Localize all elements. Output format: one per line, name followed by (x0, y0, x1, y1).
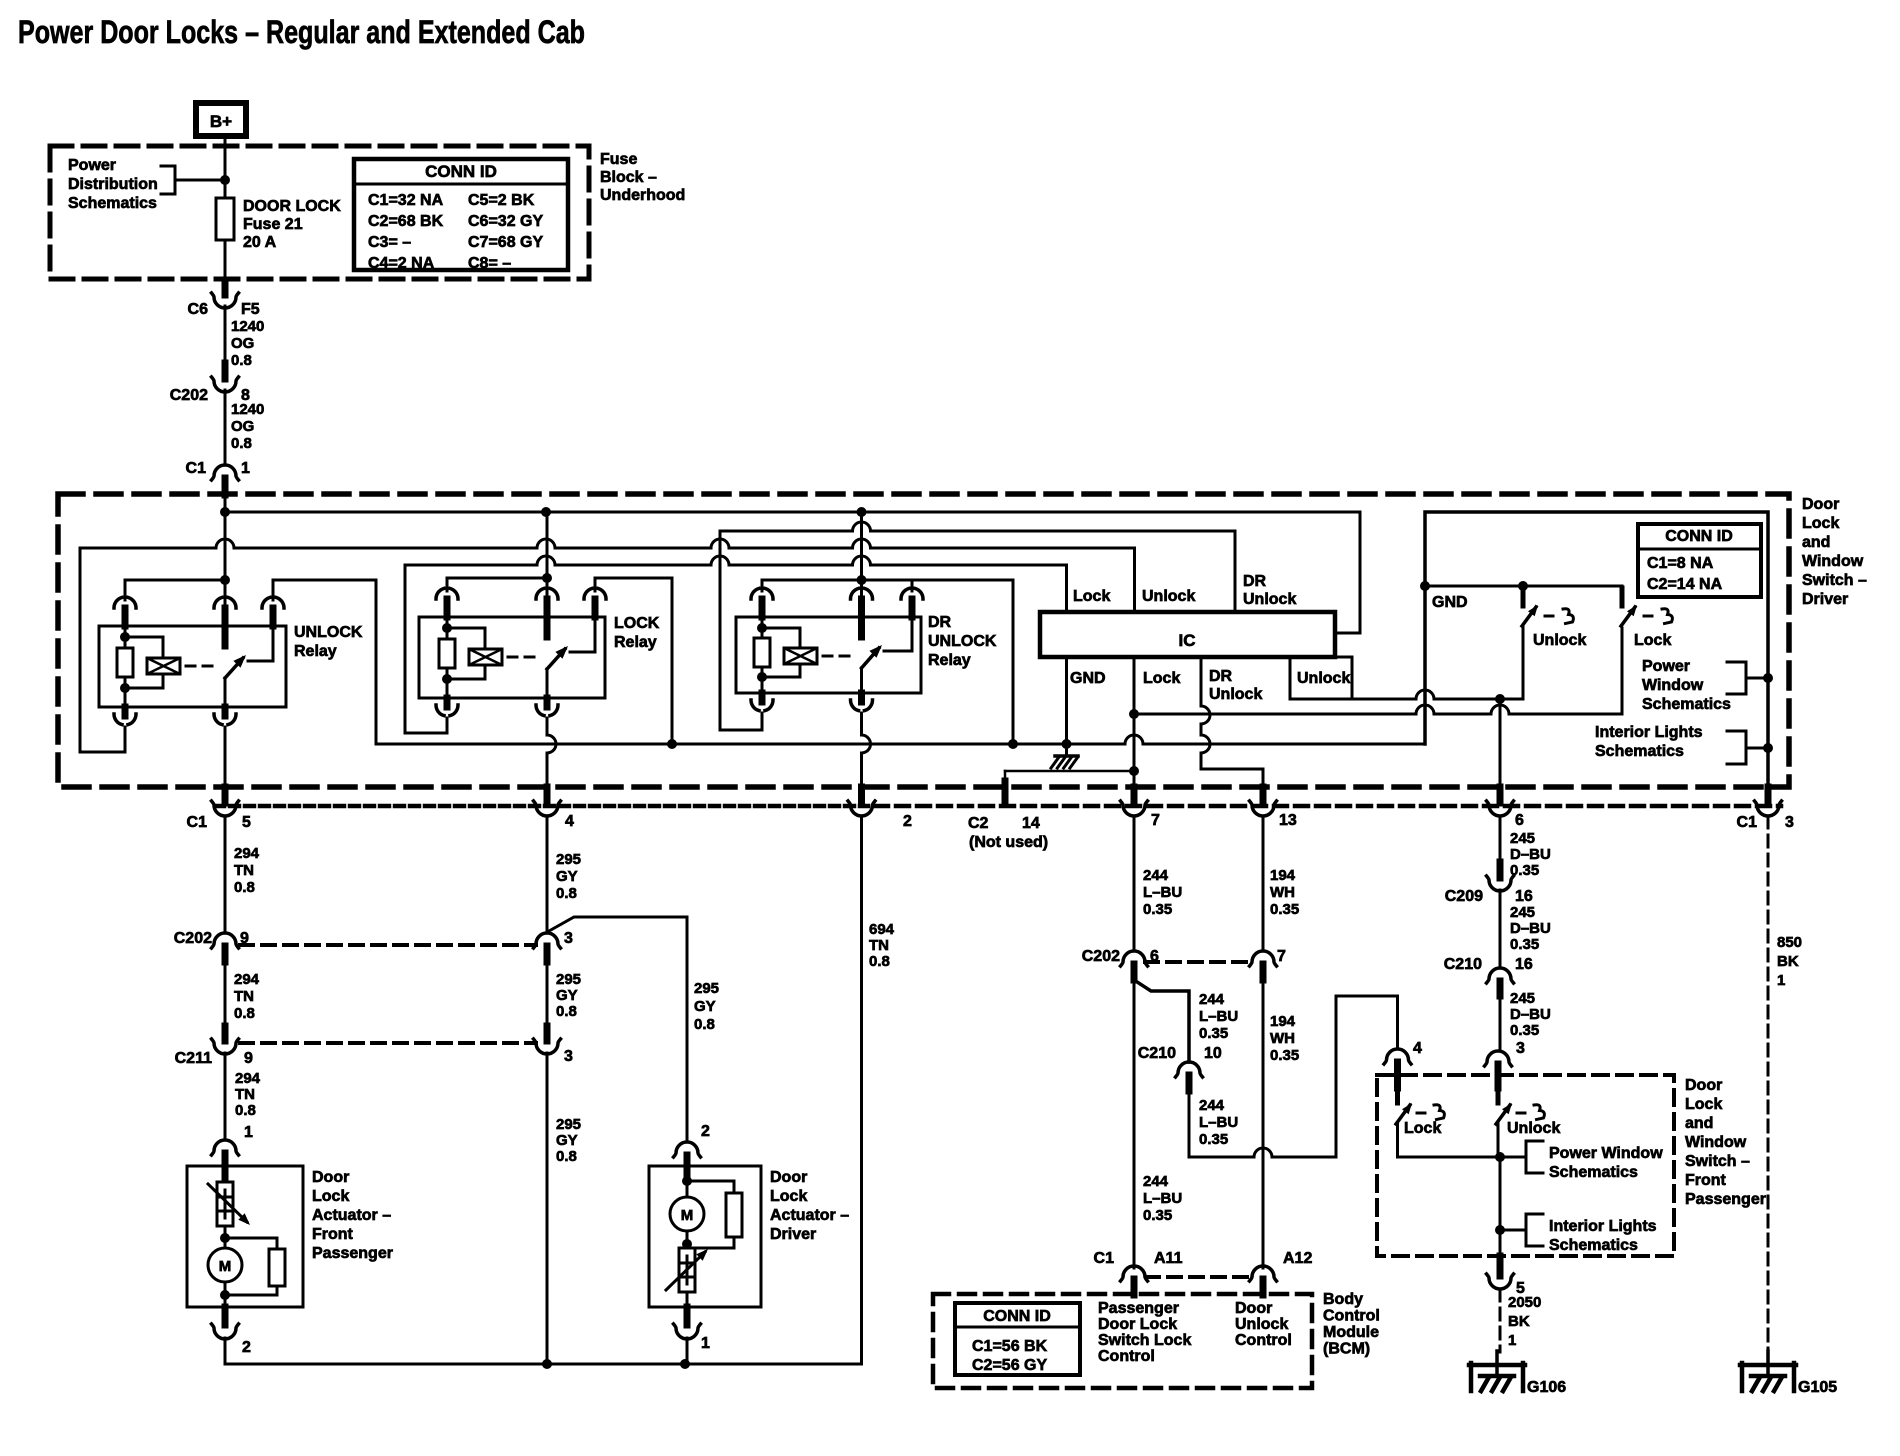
svg-text:9: 9 (244, 1050, 253, 1067)
svg-text:C1: C1 (1737, 814, 1758, 831)
svg-text:9: 9 (240, 930, 249, 947)
node IC lock pin at driver lock wire (1129, 709, 1139, 719)
svg-text:TN: TN (234, 862, 254, 879)
svg-text:M: M (681, 1207, 694, 1224)
svg-text:0.8: 0.8 (694, 1016, 715, 1033)
svg-text:C7=68 GY: C7=68 GY (468, 234, 543, 251)
node common wire at driver pin 1 (680, 1359, 690, 1369)
wire dr unlock coil feed and right pin to output drop (762, 580, 1013, 744)
node dr unlock relay B+ feed (857, 575, 867, 585)
connector C202 pin 7 (1250, 951, 1277, 966)
svg-text:Body: Body (1323, 1291, 1363, 1308)
connector C2 pin 6 (1497, 787, 1504, 803)
dr unlock relay coil pin top connector (751, 588, 759, 599)
svg-text:C202: C202 (170, 387, 208, 404)
unlock relay coil resistor (124, 626, 127, 648)
svg-text:C8= –: C8= – (468, 255, 511, 272)
svg-text:0.35: 0.35 (1270, 1047, 1299, 1064)
svg-text:C202: C202 (174, 930, 212, 947)
svg-text:C1=56 BK: C1=56 BK (972, 1338, 1048, 1355)
svg-text:2050: 2050 (1508, 1294, 1541, 1311)
svg-text:G105: G105 (1798, 1379, 1837, 1396)
svg-text:C210: C210 (1444, 956, 1482, 973)
svg-text:0.35: 0.35 (1199, 1131, 1228, 1148)
node ground bus at dr unlock output (1008, 739, 1018, 749)
svg-text:0.8: 0.8 (235, 1102, 256, 1119)
svg-text:GY: GY (556, 1132, 578, 1149)
ground bus wire (376, 735, 1425, 744)
svg-text:Module: Module (1323, 1324, 1379, 1341)
svg-text:0.35: 0.35 (1510, 1022, 1539, 1039)
svg-text:C1: C1 (186, 460, 207, 477)
svg-text:245: 245 (1510, 990, 1535, 1007)
dr unlock relay switch blade (862, 648, 880, 668)
svg-text:OG: OG (231, 418, 254, 435)
dr unlock relay coil bottom pin connector (759, 693, 766, 702)
wire driver unlock output down to pin 6 (1499, 699, 1502, 786)
svg-text:C6: C6 (188, 301, 209, 318)
connector face dotted line (215, 804, 868, 809)
svg-text:0.8: 0.8 (869, 953, 890, 970)
connector BCM row dashed line (1146, 1275, 1252, 1279)
svg-text:20 A: 20 A (243, 234, 277, 251)
svg-text:Window: Window (1802, 553, 1864, 570)
svg-text:244: 244 (1199, 1097, 1225, 1114)
svg-text:C210: C210 (1138, 1045, 1176, 1062)
connector BCM pin A12 (1250, 1266, 1277, 1281)
svg-text:294: 294 (234, 971, 260, 988)
wire 294 TN 0.8 C211 to actuator pin 1 (224, 1053, 227, 1140)
svg-text:CONN ID: CONN ID (983, 1308, 1051, 1325)
svg-text:Power: Power (68, 157, 116, 174)
wire lock relay feed from bus A (546, 512, 549, 599)
connector C2 pin 13 (1260, 787, 1267, 803)
node driver switch unlock contact (1518, 581, 1528, 591)
svg-text:Lock: Lock (1685, 1096, 1722, 1113)
wire dr unlock bus left leg to dr unlock relay coil (720, 531, 762, 730)
svg-text:Passenger: Passenger (1098, 1300, 1179, 1317)
svg-text:Schematics: Schematics (68, 195, 157, 212)
connector C2 pin 7 (1131, 787, 1138, 803)
svg-text:C4=2 NA: C4=2 NA (368, 255, 435, 272)
svg-text:Fuse 21: Fuse 21 (243, 216, 303, 233)
svg-text:CONN ID: CONN ID (425, 162, 497, 181)
svg-text:TN: TN (235, 1086, 255, 1103)
lock relay box (419, 617, 605, 698)
wire lock relay right pin to output drop (595, 578, 672, 744)
op-amp IC box (1040, 612, 1335, 657)
body control module dashed box (933, 1294, 1312, 1388)
svg-text:0.35: 0.35 (1143, 1207, 1172, 1224)
dr unlock relay coil winding branch (762, 628, 800, 677)
svg-text:and: and (1802, 534, 1830, 551)
svg-text:2: 2 (242, 1339, 251, 1356)
unlock relay coil bottom pin connector (122, 707, 129, 716)
svg-text:C2=14 NA: C2=14 NA (1647, 576, 1723, 593)
svg-text:14: 14 (1022, 815, 1040, 832)
wire 294 TN 0.8 C202 to C211 (224, 962, 227, 1040)
svg-text:CONN ID: CONN ID (1665, 528, 1733, 545)
connector actuator driver pin 1 (684, 1307, 691, 1325)
dr unlock relay right pin top connector (901, 588, 909, 599)
connector actuator passenger pin 2 (222, 1307, 229, 1325)
svg-text:6: 6 (1515, 812, 1524, 829)
connector row C211 dashed line (240, 1041, 536, 1045)
node unlock coil top (120, 632, 130, 642)
CONN ID table fuse block (354, 159, 568, 270)
node unlock coil bottom (120, 683, 130, 693)
svg-text:WH: WH (1270, 1030, 1295, 1047)
door lock actuator front passenger box (187, 1166, 303, 1307)
connector C1 pin 4 (544, 787, 551, 803)
svg-text:245: 245 (1510, 904, 1535, 921)
svg-text:Unlock: Unlock (1235, 1316, 1288, 1333)
ground G105 (1740, 1363, 1796, 1368)
wire dr unlock relay feed from bus A (860, 512, 863, 599)
svg-text:Fuse: Fuse (600, 151, 637, 168)
connector BCM pin A11 (1121, 1266, 1148, 1281)
driver switch inner box (1425, 512, 1768, 787)
svg-text:Block –: Block – (600, 169, 657, 186)
svg-text:A11: A11 (1154, 1250, 1183, 1267)
svg-text:C2: C2 (968, 815, 989, 832)
svg-text:0.8: 0.8 (234, 879, 255, 896)
ground G106 (1469, 1363, 1525, 1368)
wire unlock bus left leg to unlock relay coil (80, 548, 125, 752)
wire 295 GY branch to driver actuator (549, 917, 687, 1142)
svg-text:Lock: Lock (1634, 632, 1671, 649)
svg-text:Unlock: Unlock (1209, 686, 1262, 703)
wire switch common down (1499, 1157, 1502, 1256)
lock relay actuation dashes (508, 656, 538, 659)
svg-text:L–BU: L–BU (1199, 1008, 1238, 1025)
wire front passenger unlock switch pivot (1497, 1124, 1500, 1157)
svg-text:C3= –: C3= – (368, 234, 411, 251)
node lock coil top (442, 623, 452, 633)
wire 294 TN 0.8 pin5 to C202 (224, 816, 227, 933)
connector row C202 left dashed line (240, 943, 536, 947)
actuator passenger variable resistor (224, 1166, 227, 1182)
svg-text:244: 244 (1143, 867, 1169, 884)
svg-text:2: 2 (903, 813, 912, 830)
svg-text:C1: C1 (187, 814, 208, 831)
svg-text:Lock: Lock (1404, 1120, 1441, 1137)
svg-text:OG: OG (231, 335, 254, 352)
svg-text:1240: 1240 (231, 401, 264, 418)
svg-text:295: 295 (694, 980, 719, 997)
lock relay right pin top connector (584, 588, 592, 599)
wire into driver switch module (224, 495, 227, 608)
svg-text:C2=56 GY: C2=56 GY (972, 1357, 1047, 1374)
svg-text:C209: C209 (1445, 888, 1483, 905)
svg-text:295: 295 (556, 851, 581, 868)
svg-text:C1=32 NA: C1=32 NA (368, 192, 444, 209)
dr unlock relay right pin internal wire (884, 617, 912, 651)
svg-text:0.8: 0.8 (556, 1148, 577, 1165)
wire lock bus left leg to lock relay coil (405, 565, 447, 733)
svg-text:Power Door Locks – Regular and: Power Door Locks – Regular and Extended … (18, 14, 585, 50)
wire 295 GY 0.8 C211 down (546, 1053, 549, 1364)
connector C209 pin 16 (1497, 862, 1504, 878)
svg-text:G106: G106 (1527, 1379, 1566, 1396)
svg-text:3: 3 (564, 1048, 573, 1065)
svg-text:1240: 1240 (231, 318, 264, 335)
svg-text:694: 694 (869, 921, 895, 938)
node bus A at main feed (220, 507, 230, 517)
connector C202 pin 6 (1121, 951, 1148, 966)
connector row C202 right dashed line (1145, 960, 1252, 964)
wire 245 D-BU 0.35 pin6 to C209 (1499, 816, 1502, 862)
node actuator driver bottom (686, 1231, 689, 1244)
svg-text:0.8: 0.8 (231, 435, 252, 452)
svg-text:3: 3 (1516, 1040, 1525, 1057)
svg-text:D–BU: D–BU (1510, 920, 1551, 937)
IC DR Unlock pin wire down to pin 13 (1201, 657, 1263, 803)
actuator driver resistor branch (687, 1181, 734, 1248)
wire lock relay output down to C1 pin 4 (547, 718, 556, 786)
svg-text:0.8: 0.8 (231, 352, 252, 369)
svg-text:Schematics: Schematics (1642, 696, 1731, 713)
svg-text:Door: Door (770, 1169, 807, 1186)
svg-text:Actuator –: Actuator – (312, 1207, 391, 1224)
wire 245 D-BU 0.35 C209 to C210 (1499, 890, 1502, 968)
svg-text:Power: Power (1642, 658, 1690, 675)
svg-text:GND: GND (1070, 670, 1106, 687)
svg-text:16: 16 (1515, 888, 1533, 905)
actuator passenger resistor branch (225, 1238, 277, 1295)
svg-text:UNLOCK: UNLOCK (294, 624, 363, 641)
svg-text:Window: Window (1642, 677, 1704, 694)
wire 194 WH 0.35 C202 to BCM A12 (1262, 980, 1265, 1268)
svg-text:16: 16 (1515, 956, 1533, 973)
node interior lights tap (1763, 743, 1773, 753)
front passenger lock switch (1395, 1085, 1400, 1103)
svg-text:and: and (1685, 1115, 1713, 1132)
svg-text:C1=8 NA: C1=8 NA (1647, 555, 1714, 572)
connector front passenger switch pin 3 (1485, 1051, 1512, 1066)
svg-text:7: 7 (1151, 812, 1160, 829)
unlock relay right pin top connector (262, 597, 270, 608)
dr unlock relay coil resistor (761, 617, 764, 638)
svg-text:0.35: 0.35 (1199, 1025, 1228, 1042)
interior lights schematics reference front passenger (1500, 1214, 1543, 1246)
connector C211 pin 9 (222, 1026, 229, 1041)
dr unlock relay switch output pin bottom connector (860, 668, 863, 693)
svg-text:L–BU: L–BU (1199, 1114, 1238, 1131)
svg-text:DOOR LOCK: DOOR LOCK (243, 198, 341, 215)
svg-text:Front: Front (312, 1226, 354, 1243)
svg-text:Front: Front (1685, 1172, 1727, 1189)
svg-text:Door: Door (312, 1169, 349, 1186)
node unlock relay B+ feed (220, 575, 230, 585)
node actuator passenger bottom (224, 1282, 227, 1307)
svg-text:LOCK: LOCK (614, 615, 660, 632)
B+ battery feed box (196, 103, 246, 136)
node bus A at dr unlock relay feed (857, 507, 867, 517)
dr unlock relay box (736, 617, 921, 693)
svg-text:10: 10 (1204, 1045, 1222, 1062)
svg-text:IC: IC (1179, 631, 1196, 650)
connector front passenger switch pin 4 (1384, 1049, 1411, 1064)
svg-text:Door: Door (1802, 496, 1839, 513)
wire 244 L-BU 0.35 pin7 to C202 (1133, 816, 1136, 951)
wire actuator passenger pin2 to common (225, 1338, 862, 1364)
svg-text:Relay: Relay (614, 634, 657, 651)
actuator driver variable resistor (679, 1248, 695, 1292)
unlock relay coil pin top connector (114, 597, 122, 608)
svg-text:Switch Lock: Switch Lock (1098, 1332, 1191, 1349)
unlock relay right pin internal wire (248, 626, 273, 661)
svg-text:Unlock: Unlock (1533, 632, 1586, 649)
svg-text:F5: F5 (241, 301, 260, 318)
actuator passenger motor (208, 1248, 242, 1282)
wire unlock bus to IC Unlock pin (80, 539, 1135, 612)
svg-text:Relay: Relay (928, 652, 971, 669)
svg-text:Actuator –: Actuator – (770, 1207, 849, 1224)
connector C211 pin 3 (544, 1026, 551, 1041)
connector C1 pin 1 (212, 465, 239, 480)
svg-text:DR: DR (1243, 573, 1267, 590)
fuse F21 DOOR LOCK 20A (216, 198, 234, 240)
wire C2 pin14 not used (1005, 770, 1134, 773)
svg-text:L–BU: L–BU (1143, 884, 1182, 901)
svg-text:Driver: Driver (1802, 591, 1848, 608)
connector front passenger switch pin 5 (1497, 1256, 1504, 1276)
CONN ID table BCM (955, 1303, 1080, 1375)
connector C1 pin 3 (1765, 787, 1772, 803)
power window schematics reference front passenger (1500, 1141, 1543, 1173)
door lock actuator driver box (649, 1166, 761, 1307)
CONN ID table driver switch (1638, 524, 1761, 597)
svg-text:Lock: Lock (770, 1188, 807, 1205)
node driver switch gnd tap (1420, 581, 1430, 591)
node driver unlock output (1495, 694, 1505, 704)
wire from B+ to fuse (224, 136, 227, 198)
connector C1 pin 5 (222, 787, 229, 803)
wire 295 GY 0.8 pin4 to C202 (546, 816, 549, 933)
svg-text:0.8: 0.8 (556, 885, 577, 902)
lock relay switch blade (547, 649, 565, 669)
lock relay coil pin top connector (436, 588, 444, 599)
door lock and window switch driver dashed box (58, 494, 1789, 787)
svg-text:TN: TN (869, 937, 889, 954)
wire dr unlock relay output down to C1 pin 2 (862, 713, 871, 786)
connector C1 pin 2 (858, 787, 865, 803)
svg-text:BK: BK (1777, 953, 1799, 970)
svg-text:(Not used): (Not used) (969, 834, 1048, 851)
lock relay switch pin top connector (536, 588, 544, 599)
node dr unlock coil bottom (757, 672, 767, 682)
lock relay coil symbol (469, 649, 502, 665)
wire 244 L-BU to BCM A11 (1133, 980, 1136, 1268)
IC Lock pin wire down to pin 7 (1133, 657, 1136, 804)
svg-text:Driver: Driver (770, 1226, 816, 1243)
wire B+ bus to IC (225, 512, 1360, 633)
svg-text:GY: GY (694, 998, 716, 1015)
svg-text:Door: Door (1235, 1300, 1272, 1317)
unlock relay switch output pin bottom connector (224, 678, 227, 707)
svg-text:DR: DR (1209, 668, 1233, 685)
svg-text:1: 1 (1777, 972, 1785, 989)
svg-text:Control: Control (1235, 1332, 1292, 1349)
fuse block underhood dashed box (50, 146, 589, 279)
lock relay switch output pin bottom connector (546, 669, 549, 698)
svg-text:3: 3 (564, 930, 573, 947)
IC Unlock pin wire to driver unlock switch (1352, 690, 1500, 699)
svg-text:DR: DR (928, 614, 952, 631)
wire lock coil to feed node (447, 577, 547, 580)
svg-text:Schematics: Schematics (1549, 1237, 1638, 1254)
svg-text:C1: C1 (1094, 1250, 1115, 1267)
dr unlock relay coil symbol (784, 648, 817, 664)
svg-text:Passenger: Passenger (1685, 1191, 1766, 1208)
svg-text:Lock: Lock (1802, 515, 1839, 532)
node IC lock pin at C2-14 wire (1129, 766, 1139, 776)
unlock relay switch blade (225, 658, 243, 678)
svg-text:D–BU: D–BU (1510, 1006, 1551, 1023)
connector C210 pin 10 (1176, 1062, 1203, 1077)
svg-text:D–BU: D–BU (1510, 846, 1551, 863)
wire driver unlock switch pivot (1500, 626, 1523, 699)
svg-text:0.8: 0.8 (234, 1005, 255, 1022)
svg-text:2: 2 (701, 1123, 710, 1140)
svg-text:BK: BK (1508, 1313, 1530, 1330)
IC bottom pin Unlock box (1290, 657, 1352, 699)
dr unlock relay switch pin top connector (851, 588, 859, 599)
node: B+ junction at power distribution tap (220, 175, 230, 185)
svg-text:Interior Lights: Interior Lights (1549, 1218, 1657, 1235)
svg-text:295: 295 (556, 971, 581, 988)
wire from fuse down to C6 (224, 240, 227, 282)
node lock coil bottom (442, 674, 452, 684)
svg-text:Passenger: Passenger (312, 1245, 393, 1262)
svg-text:Power Window: Power Window (1549, 1145, 1663, 1162)
svg-text:(BCM): (BCM) (1323, 1341, 1370, 1358)
svg-text:Relay: Relay (294, 643, 337, 660)
ground symbol IC (1065, 744, 1068, 756)
svg-text:244: 244 (1143, 1173, 1169, 1190)
svg-text:0.8: 0.8 (556, 1003, 577, 1020)
svg-text:UNLOCK: UNLOCK (928, 633, 997, 650)
svg-text:Unlock: Unlock (1507, 1120, 1560, 1137)
wire 244 L-BU jog to C210 pin 10 (1134, 980, 1189, 1062)
node dr unlock coil top (757, 623, 767, 633)
svg-text:1: 1 (1508, 1332, 1516, 1349)
svg-text:13: 13 (1279, 812, 1297, 829)
node lock relay B+ feed (542, 573, 552, 583)
svg-text:C2=68 BK: C2=68 BK (368, 213, 444, 230)
lock relay right pin internal wire (570, 617, 595, 652)
svg-text:Control: Control (1098, 1348, 1155, 1365)
wire 245 D-BU 0.35 C210 to switch pin 3 (1499, 996, 1502, 1051)
svg-text:1: 1 (701, 1335, 710, 1352)
svg-text:C202: C202 (1082, 948, 1120, 965)
svg-text:Lock: Lock (1143, 670, 1180, 687)
wire 194 WH 0.35 pin13 to C202 (1262, 816, 1265, 951)
svg-text:Lock: Lock (312, 1188, 349, 1205)
svg-text:194: 194 (1270, 1013, 1296, 1030)
svg-text:Unlock: Unlock (1297, 670, 1350, 687)
wire coil feed to B+ node (125, 579, 225, 582)
svg-text:L–BU: L–BU (1143, 1190, 1182, 1207)
svg-text:C5=2 BK: C5=2 BK (468, 192, 535, 209)
wire 1240 OG 0.8 (C202 to C1) (224, 390, 227, 465)
svg-text:Distribution: Distribution (68, 176, 158, 193)
svg-text:295: 295 (556, 1116, 581, 1133)
wire lock bus to IC Lock pin (405, 556, 1067, 612)
wire 295 GY 0.8 C202 to C211 (546, 962, 549, 1026)
wire unlock relay output down to C1 pin 5 (224, 727, 227, 786)
